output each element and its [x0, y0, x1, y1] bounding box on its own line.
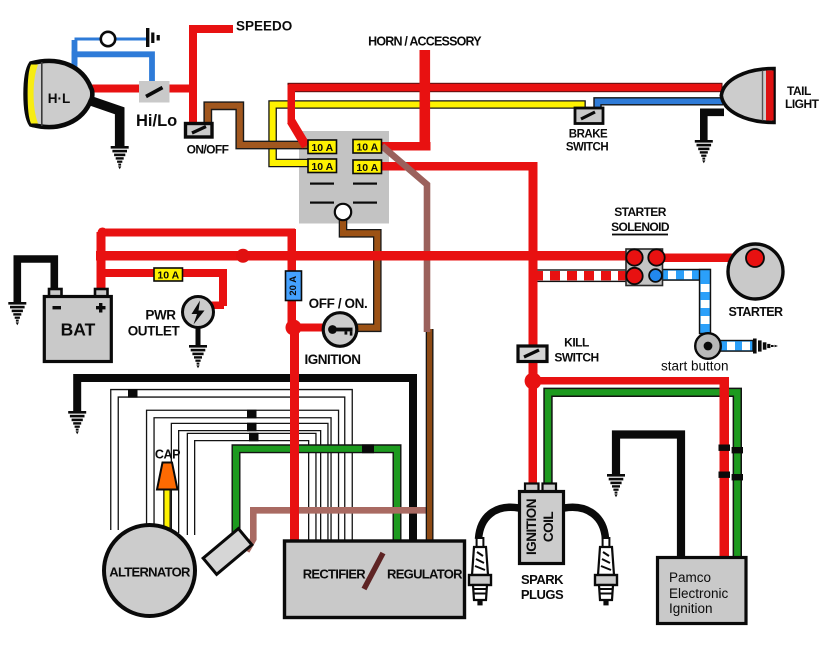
wire: black Pamco ignition to ground [616, 435, 681, 559]
wire: brown ON/OFF switch to fuse box [208, 106, 309, 145]
ground symbol power outlet [189, 345, 207, 368]
svg-text:20 A: 20 A [288, 276, 299, 296]
alternator [104, 525, 195, 616]
starter solenoid [626, 249, 665, 286]
wire: red kill switch to junction [529, 360, 538, 382]
wire: black tail light to ground [704, 112, 724, 140]
wire: blue riser from headlight top [72, 40, 78, 71]
wire: yellow bus fuse-to-brake-switch [273, 105, 582, 164]
wire: red power outlet stub [210, 302, 224, 310]
battery plus label [96, 306, 106, 309]
rectifier regulator box [285, 541, 465, 618]
ground symbol Pamco [607, 474, 625, 497]
wire: red main riser through 20A fuse [288, 229, 297, 328]
svg-text:KILL: KILL [564, 336, 589, 350]
svg-text:SOLENOID: SOLENOID [611, 220, 670, 234]
ignition coil [520, 484, 564, 564]
connector tick red Pamco riser upper [719, 445, 731, 451]
wire: green points plate to rectifier [236, 449, 397, 541]
fuse 10A row1 left [308, 140, 337, 154]
wire: red main power bus battery to solenoid [96, 251, 634, 261]
svg-text:REGULATOR: REGULATOR [387, 567, 463, 582]
wire: red main riser to rectifier [290, 327, 299, 541]
ground symbol headlight [111, 146, 129, 169]
ground symbol main bus left [68, 411, 86, 434]
svg-text:BRAKE: BRAKE [569, 129, 608, 141]
svg-text:STARTER: STARTER [614, 205, 667, 219]
svg-text:start button: start button [661, 359, 729, 374]
wire: blue/white striped solenoid to start button [658, 270, 711, 334]
svg-text:STARTER: STARTER [729, 305, 783, 319]
svg-text:RECTIFIER: RECTIFIER [303, 567, 367, 582]
wire: red solenoid to starter [656, 254, 755, 263]
wire: black power outlet stem [196, 326, 201, 345]
ground symbol tail light [695, 140, 713, 163]
svg-text:10 A: 10 A [311, 161, 333, 173]
svg-text:10 A: 10 A [157, 270, 179, 282]
svg-text:OUTLET: OUTLET [128, 324, 181, 339]
wire: blue/white striped start button to ground cone [720, 341, 753, 352]
points plate [203, 529, 252, 575]
junction dot battery top feeder [98, 228, 108, 238]
wire: red Pamco riser [720, 377, 730, 558]
ground symbol battery negative [8, 302, 26, 325]
wire: black main ground bus (battery area to rectifier) [77, 378, 413, 541]
ground cone start button [753, 339, 778, 354]
svg-text:10 A: 10 A [356, 162, 378, 174]
wire: white alternator loop A (outermost) [115, 393, 349, 541]
junction blob on main bus [236, 249, 250, 263]
svg-text:ALTERNATOR: ALTERNATOR [109, 565, 191, 580]
wire: red headlight to Hi/Lo to junction [86, 85, 197, 93]
connector bars at end of blue pilot wire [146, 28, 149, 47]
spark plug lead right [564, 507, 606, 539]
spark plug left [469, 538, 491, 605]
wire: red HORN/ACCESSORY riser [420, 50, 431, 148]
svg-text:Hi/Lo: Hi/Lo [136, 112, 177, 130]
wire: red junction to Pamco horizontal [533, 377, 729, 385]
wire: maroon points plate to harness [247, 510, 434, 551]
svg-text:HORN / ACCESSORY: HORN / ACCESSORY [368, 35, 482, 49]
svg-text:OFF / ON.: OFF / ON. [309, 296, 368, 311]
tail light [721, 69, 774, 123]
rectifier slash mark [364, 553, 383, 589]
wire: red power outlet feeder [100, 269, 227, 277]
svg-text:COIL: COIL [541, 512, 556, 543]
fuse 10A row2 right [353, 160, 382, 174]
svg-text:PWR: PWR [145, 308, 176, 323]
fuse 20A main [286, 271, 302, 301]
svg-text:10 A: 10 A [356, 142, 378, 154]
svg-text:LIGHT: LIGHT [785, 97, 820, 111]
wire: red junction down to ignition coil [529, 381, 538, 485]
start button [695, 333, 721, 359]
svg-text:Pamco: Pamco [669, 570, 711, 585]
wire: brown harness down to rectifier [426, 329, 434, 541]
wire: black headlight to ground [84, 99, 120, 147]
Hi/Lo switch [139, 81, 170, 103]
wire: red riser to SPEEDO [189, 28, 197, 124]
wire: red ignition switch stub [293, 324, 330, 332]
svg-text:SPARK: SPARK [521, 572, 564, 587]
battery minus label [53, 306, 62, 309]
headlight H-L [26, 61, 93, 127]
wire: blue thin pilot lamp wire [75, 38, 147, 41]
wire: red fuse 2R to kill switch riser [381, 162, 538, 171]
svg-text:SWITCH: SWITCH [554, 351, 598, 365]
svg-text:TAIL: TAIL [787, 84, 811, 98]
fuse box grommet circle [335, 204, 351, 220]
wire: white alternator loop B [150, 414, 334, 541]
cap connector [157, 463, 178, 490]
wire: maroon fuse box to engine harness [382, 146, 427, 332]
battery [44, 289, 111, 362]
connector tick on loop C [247, 423, 257, 432]
wire: yellow alternator cap lead [163, 490, 171, 532]
wire: red power outlet drop [219, 269, 227, 306]
ignition switch [323, 313, 357, 347]
connector tick green Pamco riser upper [732, 447, 743, 453]
wire: white alternator loop D (innermost) [191, 437, 312, 541]
wire: red top feeder wire [99, 229, 295, 237]
pilot lamp circle [101, 32, 115, 46]
wire: white alternator loop C [175, 427, 324, 541]
spark plug lead left [479, 507, 520, 539]
connector tick red Pamco riser lower [719, 472, 731, 478]
svg-text:ON/OFF: ON/OFF [187, 143, 229, 157]
svg-text:10 A: 10 A [311, 142, 333, 154]
wire: red fuse 1R to horn riser [381, 142, 431, 151]
brake switch [575, 108, 603, 124]
spark plug right [595, 538, 617, 605]
fuse 10A row1 right [353, 140, 382, 154]
connector tick on loop B [247, 410, 257, 419]
wire: brown fuse box to ignition switch [343, 218, 377, 328]
svg-text:IGNITION: IGNITION [524, 499, 539, 555]
starter terminal dot [746, 249, 764, 267]
wire: green coil feed (kill circuit to coil and Pamco) [548, 392, 737, 558]
svg-text:Electronic: Electronic [669, 586, 729, 601]
svg-text:SWITCH: SWITCH [566, 142, 609, 154]
connector tick on green points wire [362, 444, 374, 453]
svg-text:IGNITION: IGNITION [305, 352, 361, 367]
fuse box [299, 131, 389, 224]
svg-text:PLUGS: PLUGS [521, 587, 564, 602]
svg-text:Ignition: Ignition [669, 601, 713, 616]
wire: red corner down to fuse box [288, 85, 296, 124]
wire: red tail light bus [288, 83, 722, 91]
Pamco electronic ignition box [658, 558, 747, 624]
fuse 10A row2 left [308, 159, 337, 173]
kill switch [518, 346, 547, 362]
fuse box spare slot dashes [310, 183, 377, 204]
wire: blue headlight to Hi/Lo switch [75, 54, 153, 84]
wire: red SPEEDO stub [189, 25, 233, 33]
svg-text:H·L: H·L [48, 91, 71, 106]
wire: red battery positive riser [97, 232, 106, 296]
svg-text:SPEEDO: SPEEDO [236, 19, 292, 34]
fuse 10A power outlet [154, 268, 183, 282]
connector tick green Pamco riser lower [732, 474, 743, 480]
ON/OFF switch [186, 124, 213, 138]
power outlet [183, 297, 214, 328]
wire: red kill switch riser upper [529, 162, 538, 347]
junction dot kill switch circuit [525, 373, 542, 390]
wire: black battery negative to ground [17, 259, 54, 302]
junction dot ignition feed [286, 320, 302, 336]
svg-text:CAP: CAP [155, 448, 180, 462]
connector tick on loop D [249, 433, 259, 442]
starter motor [728, 244, 783, 299]
wire: red diagonal into fuse box [291, 121, 306, 146]
connector tick on loop A [128, 389, 138, 398]
svg-text:BAT: BAT [61, 320, 96, 340]
wire: blue brake-switch to tail light [598, 101, 724, 110]
wire: red/white striped kill-to-solenoid [533, 270, 628, 281]
